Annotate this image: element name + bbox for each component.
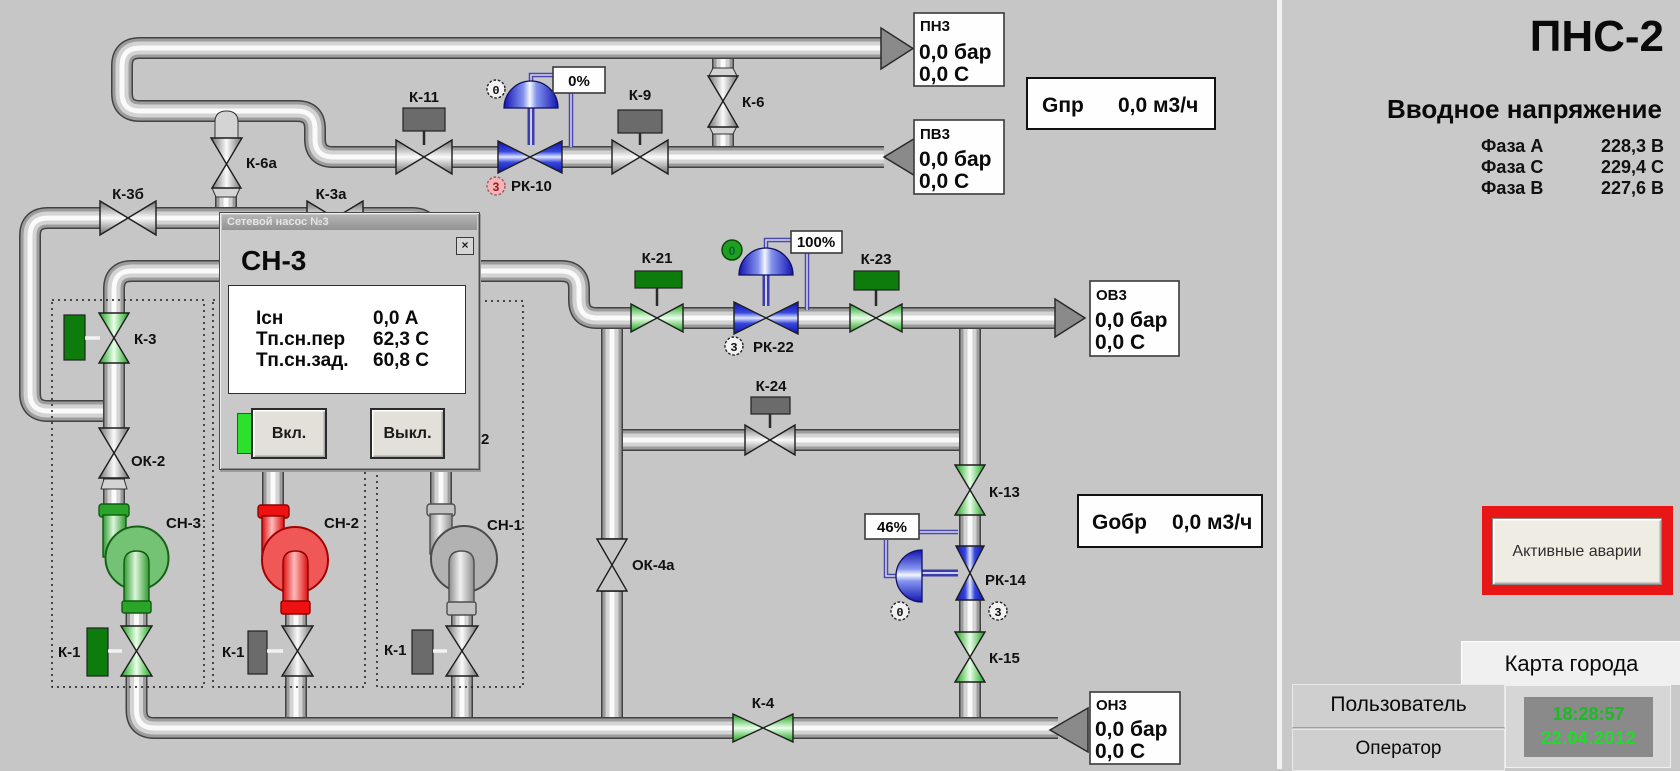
- svg-text:К-3а: К-3а: [316, 186, 347, 203]
- svg-text:0,0 бар: 0,0 бар: [919, 148, 992, 171]
- wire: pump SN-2 riser: [262, 470, 284, 508]
- svg-text:ОВ3: ОВ3: [1096, 287, 1127, 304]
- panel title PNS-2: [1282, 12, 1664, 62]
- valve K-3b: [100, 186, 156, 235]
- svg-text:К-6: К-6: [742, 94, 765, 111]
- node Gobr flow box: [1078, 495, 1262, 547]
- active alarms button with red frame: [1482, 506, 1673, 595]
- svg-text:46%: 46%: [877, 519, 907, 536]
- dialog button Vkl: [251, 408, 327, 459]
- svg-text:3: 3: [730, 341, 737, 355]
- svg-text:0,0 м3/ч: 0,0 м3/ч: [1118, 94, 1198, 117]
- dashed pump group box 2: [213, 300, 365, 687]
- phase C row: [1481, 157, 1543, 178]
- dashed pump group box 3: [377, 301, 523, 687]
- svg-text:К-15: К-15: [989, 650, 1020, 667]
- wire: top supply loop to PN3/PV3: [122, 48, 884, 157]
- svg-text:К-3: К-3: [134, 331, 157, 348]
- svg-text:0,0 бар: 0,0 бар: [919, 41, 992, 64]
- panel subtitle input voltage: [1282, 94, 1662, 125]
- svg-text:0,0 бар: 0,0 бар: [1095, 309, 1168, 332]
- svg-text:СН-2: СН-2: [324, 515, 359, 532]
- svg-text:3: 3: [994, 606, 1001, 620]
- svg-text:К-24: К-24: [756, 378, 787, 395]
- svg-text:К-23: К-23: [861, 251, 892, 268]
- valve K-13: [955, 465, 1020, 515]
- svg-text:СН-1: СН-1: [487, 517, 522, 534]
- dialog title bar: [222, 215, 477, 230]
- svg-text:РК-14: РК-14: [985, 572, 1026, 589]
- check valve OK-4a: [597, 539, 675, 591]
- valve K-1 (pump 1): [384, 626, 478, 676]
- valve K-24: [745, 378, 795, 455]
- svg-text:0: 0: [896, 606, 903, 620]
- valve K-1 (pump 3): [58, 626, 152, 676]
- dialog green run indicator: [237, 413, 254, 454]
- wire: K-24 bypass line: [612, 429, 970, 451]
- wire: pump SN-3 suction column: [103, 405, 125, 507]
- wire: OK-4a drop line: [601, 318, 623, 722]
- valve K-4: [733, 695, 793, 742]
- svg-text:Gпр: Gпр: [1042, 94, 1084, 117]
- svg-text:3: 3: [493, 180, 500, 194]
- valve K-23: [850, 251, 902, 332]
- valve K-3: [64, 313, 157, 363]
- svg-text:К-6а: К-6а: [246, 155, 277, 172]
- node PV3 inlet arrow: [884, 137, 917, 177]
- svg-text:К-13: К-13: [989, 484, 1020, 501]
- svg-text:К-1: К-1: [222, 644, 245, 661]
- dialog button Vykl: [370, 408, 445, 459]
- wire: pump SN-1 discharge: [451, 610, 473, 722]
- svg-text:2: 2: [481, 431, 489, 448]
- wire: pump SN-1 riser: [430, 470, 452, 506]
- valve K-3a: [307, 186, 363, 235]
- user label box: [1292, 684, 1505, 728]
- svg-text:100%: 100%: [797, 234, 835, 251]
- svg-text:РК-10: РК-10: [511, 178, 552, 195]
- dashed pump group box 1: [52, 300, 204, 687]
- dialog white readout panel: [228, 285, 466, 394]
- svg-text:К-11: К-11: [409, 89, 439, 106]
- svg-text:ОК-4а: ОК-4а: [632, 557, 675, 574]
- svg-text:РК-22: РК-22: [753, 339, 794, 356]
- svg-text:ПВ3: ПВ3: [920, 126, 950, 143]
- right side panel: [1277, 0, 1282, 769]
- pump SN-1: [427, 504, 522, 615]
- check valve OK-2: [99, 428, 165, 489]
- valve K-1 (pump 2): [222, 626, 313, 676]
- wire: pump SN-2 discharge: [285, 610, 307, 722]
- node OV3 outlet arrow: [1055, 299, 1085, 337]
- node ON3 value box: [1090, 692, 1180, 764]
- svg-text:К-21: К-21: [642, 250, 673, 267]
- svg-text:Gобр: Gобр: [1092, 511, 1147, 534]
- clock container: [1505, 685, 1671, 768]
- svg-text:0: 0: [492, 84, 499, 98]
- svg-text:К-1: К-1: [384, 642, 407, 659]
- control valve PK-10: [487, 67, 605, 195]
- valve K-6: [708, 68, 765, 134]
- svg-text:К-1: К-1: [58, 644, 81, 661]
- valve K-11: [396, 89, 452, 174]
- node OV3 value box: [1090, 281, 1179, 356]
- dialog window SN-3 (Сетевой насос №3): [219, 212, 480, 470]
- svg-text:0: 0: [729, 244, 736, 258]
- wire: K-6a branch: [215, 113, 237, 216]
- pump SN-2: [258, 505, 359, 614]
- node PV3 value box: [914, 120, 1004, 194]
- svg-text:ОН3: ОН3: [1096, 697, 1127, 714]
- svg-text:ОК-2: ОК-2: [131, 453, 165, 470]
- svg-text:0,0 С: 0,0 С: [1095, 740, 1145, 763]
- wire: K-3b suction line with left drop: [30, 218, 430, 411]
- digital clock: [1524, 697, 1653, 757]
- control valve PK-14: [865, 514, 1026, 620]
- valve K-21: [631, 250, 683, 332]
- svg-text:0%: 0%: [568, 73, 590, 90]
- control valve PK-22: [722, 231, 842, 356]
- svg-text:К-9: К-9: [629, 87, 652, 104]
- dialog close button: [456, 237, 474, 255]
- valve K-9: [612, 87, 668, 174]
- wire: K-6 branch: [712, 50, 734, 155]
- svg-text:0,0 С: 0,0 С: [919, 63, 969, 86]
- node PN3 value box: [914, 13, 1004, 86]
- node: hidden label fragment "2": [481, 431, 489, 448]
- wire: K-13/PK-14/K-15 drop line: [959, 318, 981, 722]
- node ON3 inlet arrow: [1050, 708, 1088, 752]
- svg-text:К-3б: К-3б: [112, 186, 144, 203]
- valve K-6a: [211, 111, 277, 197]
- operator label box: [1292, 729, 1505, 771]
- svg-text:К-4: К-4: [752, 695, 775, 712]
- dialog header SN-3: [241, 245, 306, 277]
- valve K-15: [955, 632, 1020, 682]
- svg-text:0,0 м3/ч: 0,0 м3/ч: [1172, 511, 1252, 534]
- wire: bottom return manifold to ON3: [137, 610, 1059, 728]
- city map button: [1461, 641, 1680, 685]
- node PN3 outlet arrow: [881, 28, 913, 69]
- svg-text:0,0 С: 0,0 С: [1095, 331, 1145, 354]
- phase A row: [1481, 136, 1543, 157]
- svg-text:ПН3: ПН3: [920, 18, 950, 35]
- svg-text:СН-3: СН-3: [166, 515, 201, 532]
- pump SN-3: [99, 504, 201, 613]
- node Gpr flow box: [1027, 78, 1215, 129]
- svg-text:0,0 С: 0,0 С: [919, 170, 969, 193]
- svg-text:0,0 бар: 0,0 бар: [1095, 718, 1168, 741]
- phase B row: [1481, 178, 1543, 199]
- wire: suction header to OV3 line: [114, 271, 1055, 417]
